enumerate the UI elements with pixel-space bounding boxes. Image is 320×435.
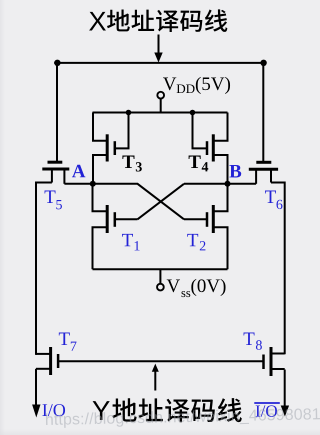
junction dot T4 gate at VDD rail bbox=[190, 110, 196, 116]
word line (X address decode line) bbox=[54, 62, 266, 64]
wire: latch top rail (VDD rail) bbox=[93, 112, 228, 114]
transistor T3 (load) bbox=[93, 113, 129, 184]
label T7 bbox=[59, 333, 77, 351]
junction dot word line left bbox=[54, 60, 60, 66]
label T1 bbox=[122, 234, 140, 251]
junction dot T3 gate at VDD rail bbox=[126, 110, 132, 116]
wire: arrow stem from X decode label down to word line bbox=[158, 35, 160, 55]
title: X address decode line (X地址译码线) bbox=[89, 9, 227, 32]
wire: VDD terminal to top rail bbox=[160, 99, 162, 113]
wire: Y arrow stem bbox=[154, 371, 156, 391]
node B junction dot bbox=[225, 181, 231, 187]
wire: I/O-bar lead down from T8 source bbox=[284, 370, 286, 408]
wire: latch bottom rail (VSS rail) bbox=[93, 268, 228, 270]
label T8 bbox=[244, 333, 262, 350]
label VDD(5V) bbox=[163, 77, 230, 94]
transistor T8 (column select) bbox=[264, 347, 285, 376]
label T4 bbox=[189, 156, 209, 172]
transistor T2 bbox=[184, 205, 228, 269]
wire: left bit line T5 source to T7 drain bbox=[36, 183, 52, 355]
wire: right bit line T6 source to T8 drain bbox=[271, 183, 285, 355]
arrowhead Y line (pointing up) bbox=[152, 364, 159, 372]
wire: T6 gate wire from word line bbox=[262, 63, 264, 161]
junction dot word line right bbox=[260, 60, 266, 66]
transistor T4 (load) bbox=[193, 113, 228, 184]
node A label bbox=[72, 165, 85, 178]
VSS terminal circle bbox=[157, 284, 164, 291]
wire: node B down to T2 drain bbox=[214, 184, 228, 212]
node A net: T5 to node A to cross-couple wire to T2 gate bbox=[64, 184, 184, 220]
title: Y address decode line (Y地址译码线) bbox=[93, 398, 242, 422]
VDD terminal circle bbox=[157, 92, 164, 99]
transistor T5 (access) bbox=[42, 162, 69, 184]
wire: VSS rail to terminal bbox=[159, 269, 161, 284]
transistor T6 (access) bbox=[249, 162, 278, 184]
label I/O bbox=[42, 404, 65, 416]
label T5 bbox=[45, 191, 62, 210]
label T2 bbox=[187, 234, 205, 251]
Y select line bbox=[58, 360, 263, 362]
arrowhead I/O (down) bbox=[32, 405, 40, 418]
wire: node A down to T1 drain bbox=[93, 184, 108, 212]
arrowhead I/O-bar (down) bbox=[281, 406, 289, 417]
label I/O-bar bbox=[256, 405, 277, 416]
label T6 bbox=[265, 191, 282, 210]
wire: T5 gate wire from word line bbox=[56, 63, 58, 161]
watermark bbox=[46, 408, 320, 429]
node A junction dot bbox=[90, 181, 96, 187]
wire: I/O lead down from T7 source bbox=[35, 369, 37, 406]
node B net: T6 to node B to cross-couple wire to T1 gate bbox=[138, 184, 257, 220]
arrowhead into word line bbox=[154, 53, 162, 63]
label T3 bbox=[122, 156, 141, 172]
node B label bbox=[229, 165, 241, 177]
transistor T7 (column select) bbox=[36, 347, 58, 375]
transistor T1 bbox=[93, 205, 138, 269]
label VSS(0V) bbox=[167, 279, 226, 297]
